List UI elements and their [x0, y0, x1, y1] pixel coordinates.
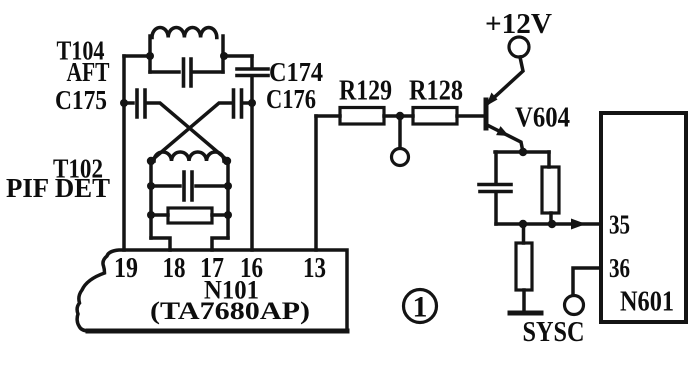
node T102 inductor left (dot) — [147, 157, 155, 165]
wire right rail (pin 16 rail) — [250, 78, 254, 250]
T102 tank left side wire — [149, 161, 153, 238]
capacitor C176 (plates) — [234, 90, 242, 117]
resistor R129 — [340, 108, 384, 125]
wire T102 right leg to pin 17 — [212, 238, 228, 250]
wire down-left to capacitor — [494, 152, 498, 183]
wire +12V to collector — [487, 57, 523, 104]
capacitor (emitter network) plates — [479, 185, 511, 192]
transistor V604 emitter — [487, 125, 523, 152]
node T104 left (dot) — [146, 52, 154, 60]
svg-text:35: 35 — [609, 210, 630, 240]
wire down-right to resistor — [547, 152, 551, 167]
wire emitter node horizontal — [495, 150, 549, 154]
node T104 right (dot) — [220, 52, 228, 60]
svg-text:R129: R129 — [339, 76, 392, 107]
svg-text:C174: C174 — [269, 57, 323, 87]
ground bar — [510, 311, 541, 316]
node C176 on right rail (dot) — [248, 99, 256, 107]
svg-text:19: 19 — [114, 253, 138, 284]
wire R128 to base of V604 — [457, 114, 484, 118]
svg-text:N601: N601 — [620, 287, 674, 318]
svg-text:SYSC: SYSC — [523, 316, 585, 348]
svg-text:(TA7680AP): (TA7680AP) — [150, 298, 310, 325]
wire left rail vertical (pin 19 rail) — [122, 56, 126, 250]
capacitor inside T104 tank — [150, 70, 223, 74]
arrow into pin 35 — [571, 219, 586, 230]
svg-text:V604: V604 — [515, 103, 570, 134]
node bottom right (dot) — [548, 220, 556, 228]
wire C175 to crossing diagonal — [148, 103, 227, 160]
wire pin 36 to terminal — [573, 268, 601, 294]
capacitor C174 (plates) — [237, 69, 268, 76]
capacitor inside T102 tank — [151, 184, 228, 188]
svg-text:13: 13 — [303, 253, 326, 284]
capacitor C175 (plates) — [124, 101, 133, 105]
svg-text:R128: R128 — [409, 76, 463, 107]
transformer T104 tank: inductor — [152, 28, 217, 38]
T104 tank left side wire — [148, 36, 152, 72]
svg-text:AFT: AFT — [67, 57, 110, 87]
IC N601 box — [601, 113, 686, 322]
wire T102 left leg to pin 18 — [151, 238, 170, 250]
node C175 on left rail (dot) — [120, 99, 128, 107]
+12V terminal circle — [509, 37, 529, 57]
svg-text:PIF DET: PIF DET — [6, 173, 110, 203]
wire C176 to crossing diagonal — [152, 103, 231, 160]
IC N101 outline with wavy left edge — [77, 250, 347, 331]
wire pin13 rail to R129 — [316, 114, 340, 118]
node T102 res right (dot) — [224, 211, 232, 219]
wire capacitor to bottom node — [494, 193, 498, 224]
node T102 res left (dot) — [147, 211, 155, 219]
node emitter (dot) — [519, 148, 527, 156]
wire T104 right node to right rail — [224, 54, 252, 58]
T104 tank right side wire — [221, 36, 225, 72]
node T102 inductor right (dot) — [223, 157, 231, 165]
wire right rail upper segment — [250, 56, 254, 67]
SYSC terminal circle — [565, 296, 584, 315]
wire R129 to R128 — [384, 114, 413, 118]
transformer T102 tank: inductor — [154, 152, 224, 161]
svg-text:1: 1 — [413, 291, 428, 324]
node T102 cap right (dot) — [224, 182, 232, 190]
svg-text:+12V: +12V — [485, 9, 552, 40]
svg-text:C176: C176 — [266, 84, 316, 114]
wire junction down to terminal — [398, 116, 402, 148]
wire resistor to bottom wire — [549, 213, 553, 224]
circled figure number 1 — [404, 290, 437, 323]
terminal circle below R129/R128 — [392, 149, 409, 166]
svg-text:C175: C175 — [55, 85, 107, 115]
T102 tank right side wire — [226, 161, 230, 238]
resistor R128 — [413, 108, 457, 125]
node between R129 and R128 (dot) — [396, 112, 404, 120]
wire T104 left node to left rail — [124, 54, 150, 58]
node bottom left (dot) — [519, 220, 527, 228]
resistor to ground — [516, 243, 532, 290]
wire pin 13 rail — [314, 116, 318, 250]
resistor (parallel with cap) — [542, 167, 559, 213]
svg-text:36: 36 — [609, 253, 630, 283]
node T102 cap left (dot) — [147, 182, 155, 190]
IC N101 bottom edge (thick) — [88, 329, 347, 334]
collector junction barb — [486, 93, 498, 107]
wire bottom node to pin 35 — [496, 222, 601, 226]
svg-text:18: 18 — [163, 253, 186, 284]
resistor inside T102 tank — [151, 213, 228, 217]
transistor V604 base bar — [484, 100, 489, 128]
wire resistor to ground — [522, 290, 526, 311]
wire node down to lower resistor — [522, 224, 526, 243]
emitter arrow — [496, 126, 509, 136]
